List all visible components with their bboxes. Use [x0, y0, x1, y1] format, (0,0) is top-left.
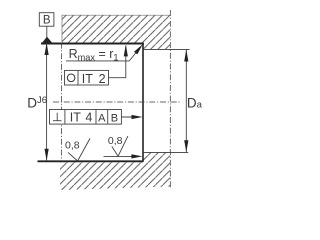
datum B filled triangle	[42, 37, 52, 43]
bore seat surface top (thick), with extension to datum/dimension	[41, 43, 144, 45]
vertical centerline (bore axis of symmetry)	[169, 10, 171, 188]
bore seat surface bottom (thick)	[38, 160, 144, 162]
circularity leader arrowhead	[124, 45, 128, 57]
housing upper section hatch	[62, 15, 170, 49]
housing lower section hatch	[60, 152, 170, 190]
dimension Da line	[185, 50, 187, 153]
datum B leader	[46, 26, 48, 37]
svg-text:2: 2	[99, 72, 106, 86]
circularity symbol	[67, 74, 75, 82]
housing upper section outline (top and left, thin fade lines)	[62, 15, 170, 43]
dimension D J6 top arrowhead	[45, 43, 49, 55]
circularity leader to bore surface	[109, 46, 126, 78]
leader to fillet corner r1	[129, 48, 140, 61]
rolling element centerline (vertical)	[61, 43, 63, 162]
horizontal centerline (bearing axis)	[53, 101, 181, 103]
hole edge bottom / Da extension line	[143, 151, 188, 153]
svg-text:0,8: 0,8	[65, 139, 80, 151]
svg-text:B: B	[43, 15, 51, 27]
dimension Da top arrowhead	[184, 50, 188, 62]
note underline	[66, 60, 129, 62]
dimension D J6 line	[46, 43, 48, 161]
perpendicularity leader to shoulder	[121, 116, 139, 118]
svg-text:4: 4	[85, 111, 92, 125]
svg-text:0,8: 0,8	[108, 135, 123, 147]
circularity frame (O IT 2)	[65, 70, 109, 85]
perpendicularity leader arrowhead	[132, 115, 143, 119]
svg-text:IT: IT	[70, 111, 81, 125]
datum B box	[39, 13, 54, 27]
perpendicularity frame (IT 4 / A / B)	[50, 110, 122, 125]
svg-text:IT: IT	[82, 72, 93, 86]
svg-text:A: A	[98, 112, 106, 124]
dimension Da bottom arrowhead	[184, 140, 188, 152]
perpendicularity symbol	[56, 113, 58, 121]
fillet leader arrowhead	[134, 44, 143, 54]
svg-text:B: B	[111, 112, 118, 124]
dimension D J6 bottom arrowhead	[45, 149, 49, 161]
hole edge top / Da extension line	[143, 48, 190, 50]
housing shoulder face (thick vertical)	[142, 43, 144, 162]
shoulder roughness leader	[104, 155, 140, 157]
shoulder roughness leader arrowhead	[131, 154, 142, 158]
